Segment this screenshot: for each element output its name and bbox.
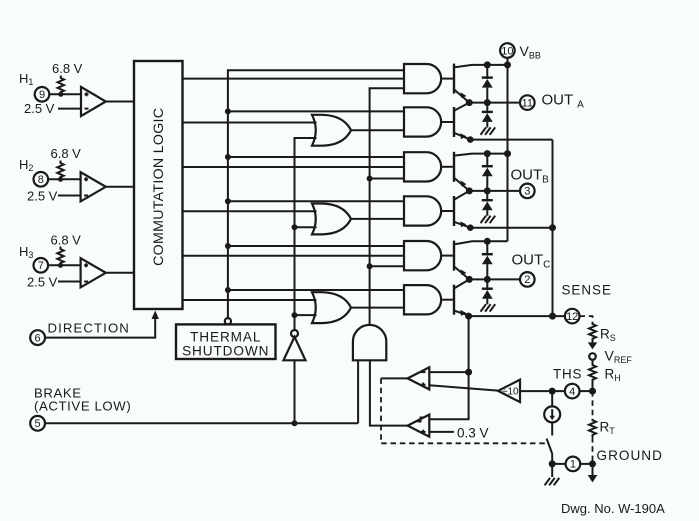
inverter U2 (brake) bbox=[284, 330, 306, 360]
wire pin12 to RS (dashed) bbox=[580, 316, 593, 322]
wire OR3 output to gate6 bbox=[351, 307, 404, 309]
and-gate G3 bbox=[404, 152, 441, 181]
wire rail B bbox=[487, 153, 507, 155]
svg-text:SENSE: SENSE bbox=[562, 283, 612, 298]
pin 5 BRAKE bbox=[30, 416, 45, 431]
svg-text:SHUTDOWN: SHUTDOWN bbox=[182, 344, 269, 359]
transistor Q1 (source A) bbox=[454, 64, 487, 103]
svg-text:11: 11 bbox=[522, 97, 533, 109]
node RH/RT/THS junction bbox=[589, 388, 596, 395]
pin 3 OUT B bbox=[520, 184, 535, 199]
diode D4 (flyback B lower) bbox=[482, 191, 493, 216]
wire enable to gate6 bbox=[228, 289, 404, 291]
svg-text:9: 9 bbox=[39, 89, 45, 101]
node OUT A / diode column bbox=[484, 99, 491, 106]
svg-text:(ACTIVE LOW): (ACTIVE LOW) bbox=[34, 399, 131, 414]
ground (phase B) bbox=[481, 216, 496, 223]
node inverter/brake bbox=[292, 420, 298, 426]
wire to OR3 lower input bbox=[295, 314, 317, 316]
wire switch to pin1 node bbox=[551, 454, 553, 464]
wire inverter input from brake line bbox=[294, 360, 296, 423]
wire THS line bbox=[520, 390, 565, 392]
wire comparator H2 to logic bbox=[106, 186, 134, 188]
wire G1 to Q1 base bbox=[441, 78, 454, 80]
wire G2 to Q2 base bbox=[441, 121, 454, 123]
pin 9 bbox=[35, 87, 50, 102]
wire G5 to Q5 base bbox=[441, 255, 454, 257]
or-gate OR3 bbox=[312, 292, 351, 323]
wire pin9 to comparator bbox=[49, 93, 81, 95]
wire Q2 emitter to sense bbox=[470, 139, 552, 141]
transistor Q3 (source B) bbox=[454, 152, 487, 191]
svg-text:7: 7 bbox=[38, 260, 44, 272]
amplifier U6 (divide by 10) bbox=[498, 380, 520, 402]
resistor H3 pull-up bbox=[57, 247, 63, 266]
or-gate OR2 bbox=[312, 204, 351, 235]
node U3/gate5 bbox=[367, 263, 373, 269]
wire THS node to current source bbox=[551, 391, 553, 406]
wire comp2 plus to 0.3V bbox=[429, 431, 454, 433]
svg-text:6: 6 bbox=[35, 332, 41, 344]
wire 2.5V to comparator minus bbox=[58, 108, 81, 110]
svg-text:COMMUTATION LOGIC: COMMUTATION LOGIC bbox=[151, 108, 167, 266]
wire node to pin 1 bbox=[552, 463, 565, 465]
svg-text:GROUND: GROUND bbox=[597, 448, 663, 463]
diode D5 (flyback C upper) bbox=[482, 241, 493, 279]
svg-text:12: 12 bbox=[566, 311, 578, 323]
node ground junction bbox=[589, 460, 596, 467]
node inverter/OR2 bbox=[292, 224, 298, 230]
node rail A / VBB bbox=[504, 61, 511, 68]
pin 2 OUT C bbox=[520, 272, 535, 287]
wire U3 output to gate5 bbox=[370, 265, 404, 267]
wire G4 to Q4 base bbox=[441, 210, 454, 212]
wire enable to gate2 bbox=[228, 110, 404, 112]
svg-text:DIRECTION: DIRECTION bbox=[48, 321, 130, 336]
svg-text:2.5 V: 2.5 V bbox=[27, 275, 58, 290]
node comp minus tap bbox=[465, 369, 472, 376]
node enable/gate2 bbox=[225, 108, 231, 114]
ground (chassis, switch) bbox=[545, 478, 560, 485]
node OUT C / upper emitter bbox=[466, 276, 473, 283]
pin 7 bbox=[34, 258, 49, 273]
svg-text:THS: THS bbox=[553, 367, 582, 382]
wire U3 output to gate3 bbox=[370, 178, 404, 180]
wire RT dashed upper bbox=[592, 391, 594, 419]
wire enable to gate5 bbox=[228, 245, 404, 247]
node rail A / diode column bbox=[484, 61, 491, 68]
pin 8 bbox=[34, 172, 49, 187]
node H1 junction bbox=[58, 92, 63, 97]
wire inverter output to OR lower inputs bbox=[295, 138, 317, 330]
commutation logic box U1 bbox=[134, 61, 183, 309]
svg-text:2.5 V: 2.5 V bbox=[27, 189, 58, 204]
wire comparator H3 to logic bbox=[106, 272, 134, 274]
wire comp1 plus from divider bbox=[429, 385, 498, 390]
wire logic out3 to gate3 bbox=[183, 166, 405, 168]
node U3/gate3 bbox=[367, 176, 373, 182]
wire logic out5 to gate5 bbox=[183, 255, 405, 257]
node pin1/switch bbox=[549, 460, 556, 467]
wire OR2 output to gate4 bbox=[351, 218, 404, 220]
svg-text:Dwg. No. W-190A: Dwg. No. W-190A bbox=[561, 501, 665, 516]
resistor H2 pull-up bbox=[57, 161, 63, 180]
wire sense vertical rail bbox=[552, 140, 554, 317]
node rail C / diode column bbox=[484, 238, 491, 245]
wire logic out1 to gate1 bbox=[183, 78, 405, 80]
pin 12 SENSE bbox=[565, 309, 580, 324]
svg-text:4: 4 bbox=[569, 386, 575, 398]
wire U3 input2 from comparator bbox=[370, 360, 408, 425]
pin 11 OUT A bbox=[520, 95, 535, 110]
diode D3 (flyback B upper) bbox=[482, 154, 493, 191]
wire pin4 to RH junction bbox=[580, 390, 593, 392]
node H3 junction bbox=[58, 263, 63, 268]
wire Q4 emitter to sense bbox=[470, 227, 552, 229]
current source I1 bbox=[544, 406, 560, 422]
wire sense tap to comparators bbox=[429, 316, 468, 419]
svg-text:5: 5 bbox=[35, 418, 41, 430]
op-amp comparator H2 bbox=[81, 172, 106, 201]
or-gate OR1 bbox=[312, 115, 351, 146]
ground (phase A) bbox=[481, 127, 496, 134]
op-amp comparator U5 (0.3V schmitt) bbox=[408, 415, 430, 437]
svg-text:6.8 V: 6.8 V bbox=[51, 146, 82, 161]
wire pin8 to comparator bbox=[48, 178, 81, 180]
diode D1 (flyback A upper) bbox=[482, 65, 493, 103]
wire pin7 to comparator bbox=[48, 264, 81, 266]
wire OR1 output to gate2 bbox=[351, 129, 404, 131]
wire OUT A node bbox=[469, 102, 520, 104]
and-gate U3 (enable, vertical) bbox=[353, 325, 386, 360]
node enable/gate3 bbox=[225, 154, 231, 160]
node sense/Q4 emitter bbox=[549, 224, 556, 231]
pin 4 THS bbox=[565, 384, 580, 399]
wire OUT B node bbox=[469, 190, 520, 192]
node THS / current source bbox=[549, 388, 556, 395]
svg-text:8: 8 bbox=[38, 174, 44, 186]
wire enable to gate4 bbox=[228, 200, 404, 202]
wire comp1 output control (dashed) bbox=[381, 378, 546, 443]
node Q4 emitter corner bbox=[467, 224, 474, 231]
node rail B / VBB bbox=[504, 150, 511, 157]
ground arrow (below RS) bbox=[588, 342, 598, 350]
wire logic out2 to OR1 bbox=[183, 122, 317, 124]
node enable/gate5 bbox=[225, 243, 231, 249]
node OUT B / upper emitter bbox=[466, 187, 473, 194]
op-amp comparator H3 bbox=[81, 258, 106, 287]
transistor Q5 (source C) bbox=[454, 241, 487, 280]
svg-text:3: 3 bbox=[524, 186, 530, 198]
and-gate G4 bbox=[404, 196, 441, 225]
node H2 junction bbox=[58, 177, 63, 182]
wire logic out4 to OR2 bbox=[183, 210, 317, 212]
wire switch node to chassis bbox=[551, 464, 553, 477]
node OUT B / diode column bbox=[484, 187, 491, 194]
svg-text:1: 1 bbox=[570, 459, 576, 471]
wire rail C from VBB bbox=[487, 240, 507, 242]
op-amp comparator H1 bbox=[81, 87, 106, 116]
svg-text:0.3 V: 0.3 V bbox=[457, 426, 489, 441]
thermal shutdown box bbox=[176, 324, 276, 359]
node inverter/OR3 bbox=[292, 312, 298, 318]
pin 10 VBB bbox=[500, 43, 515, 58]
svg-text:÷10: ÷10 bbox=[502, 387, 519, 398]
node enable/gate6 bbox=[225, 287, 231, 293]
node sense line bbox=[549, 313, 556, 320]
node OUT C / diode column bbox=[484, 276, 491, 283]
transistor Q6 (sink C) bbox=[454, 279, 470, 316]
switch SW1 bbox=[547, 439, 553, 454]
wire brake line bbox=[45, 422, 358, 424]
node OUT A / upper emitter bbox=[466, 99, 473, 106]
wire VBB vertical rail bbox=[507, 58, 509, 242]
node rail B / diode column bbox=[484, 150, 491, 157]
wire current source to switch bbox=[551, 422, 553, 435]
svg-text:10: 10 bbox=[501, 45, 513, 57]
wire comp1 minus input bbox=[429, 371, 468, 373]
arrow into logic box bbox=[152, 311, 159, 320]
and-gate G1 bbox=[404, 64, 441, 93]
inverter bubble on thermal shutdown output bbox=[225, 318, 231, 324]
transistor Q2 (sink A) bbox=[454, 103, 470, 140]
and-gate G5 bbox=[404, 241, 441, 270]
wire 2.5V to comparator minus bbox=[58, 281, 81, 283]
svg-text:THERMAL: THERMAL bbox=[190, 330, 261, 345]
diode D6 (flyback C lower) bbox=[482, 279, 493, 304]
wire comparator H1 to logic bbox=[106, 101, 134, 103]
resistor RH bbox=[589, 360, 596, 391]
node VREF (open) bbox=[589, 353, 596, 360]
wire U3 input1 from brake bbox=[357, 360, 359, 423]
wire thermal enable bus (vertical) bbox=[228, 70, 404, 318]
svg-text:2: 2 bbox=[524, 274, 530, 286]
node sense comparator tap bbox=[465, 313, 472, 320]
wire rail A bbox=[487, 64, 507, 66]
wire direction to logic bbox=[45, 317, 155, 338]
op-amp comparator U4 (current limit) bbox=[408, 367, 430, 389]
wire OUT C node bbox=[469, 278, 520, 280]
wire Q6 emitter to sense line bbox=[470, 315, 565, 317]
wire RT dashed lower bbox=[592, 437, 594, 464]
resistor RS bbox=[589, 323, 596, 342]
svg-text:6.8 V: 6.8 V bbox=[52, 61, 83, 76]
svg-text:2.5 V: 2.5 V bbox=[24, 101, 55, 116]
svg-text:6.8 V: 6.8 V bbox=[51, 233, 82, 248]
node Q2 emitter corner bbox=[467, 136, 474, 143]
wire G3 to Q3 base bbox=[441, 166, 454, 168]
diode D2 (flyback A lower) bbox=[482, 103, 493, 128]
wire pin 1 to ground junction bbox=[580, 463, 592, 465]
node enable/gate4 bbox=[225, 198, 231, 204]
and-gate G2 bbox=[404, 107, 441, 136]
wire enable to gate3 bbox=[228, 156, 404, 158]
pin 6 DIRECTION bbox=[30, 330, 45, 345]
wire comp1 output bbox=[381, 377, 408, 379]
pin 1 GROUND bbox=[566, 457, 581, 472]
wire logic out6 to OR3 bbox=[183, 299, 317, 301]
and-gate G6 bbox=[404, 285, 441, 314]
wire 2.5V to comparator minus bbox=[58, 195, 81, 197]
wire to OR2 lower input bbox=[295, 226, 317, 228]
resistor RT bbox=[589, 419, 596, 437]
resistor H1 pull-up bbox=[58, 76, 64, 95]
ground arrow (below pin 1) bbox=[588, 464, 598, 483]
ground (phase C) bbox=[481, 304, 496, 311]
wire G6 to Q6 base bbox=[441, 299, 454, 301]
wire U3 output to gate1 bbox=[370, 88, 404, 325]
transistor Q4 (sink B) bbox=[454, 191, 470, 228]
